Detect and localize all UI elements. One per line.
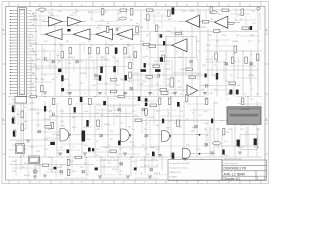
svg-text:A1: A1	[33, 62, 35, 65]
svg-text:A2: A2	[33, 39, 35, 42]
svg-text:1M: 1M	[12, 123, 15, 125]
svg-text:BC547: BC547	[108, 45, 115, 47]
svg-text:Dargestellt: DRONN: Dargestellt: DRONN	[170, 162, 190, 165]
svg-text:1k: 1k	[96, 141, 98, 143]
svg-text:A8: A8	[30, 57, 32, 60]
svg-text:BC547: BC547	[206, 59, 213, 61]
svg-text:47k: 47k	[134, 115, 137, 117]
svg-text:330R: 330R	[68, 57, 73, 59]
svg-text:47k: 47k	[140, 27, 143, 29]
svg-text:1k: 1k	[180, 94, 182, 96]
svg-text:A2: A2	[30, 92, 32, 95]
svg-text:◁— N4148 signal ref line: ◁— N4148 signal ref line	[96, 159, 119, 162]
svg-text:A3: A3	[30, 68, 32, 71]
svg-text:100k: 100k	[142, 81, 146, 83]
svg-text:100n: 100n	[116, 20, 120, 22]
svg-text:10n: 10n	[144, 129, 147, 131]
svg-text:22k: 22k	[84, 127, 87, 129]
svg-text:A6: A6	[32, 24, 34, 27]
svg-text:Zeichnungs-Nr.: Zeichnungs-Nr.	[224, 162, 239, 165]
svg-text:LM358: LM358	[200, 27, 207, 29]
svg-text:100n: 100n	[96, 28, 100, 30]
svg-text:100n: 100n	[40, 79, 44, 81]
svg-text:1M: 1M	[204, 129, 207, 131]
svg-text:330R: 330R	[212, 75, 217, 77]
svg-text:100k: 100k	[48, 169, 52, 171]
svg-text:LM358: LM358	[154, 173, 161, 175]
svg-text:A7: A7	[33, 27, 35, 30]
svg-text:A/RL-LZ 3B4R: A/RL-LZ 3B4R	[224, 172, 246, 176]
svg-text:DDR0NDE1 Plt: DDR0NDE1 Plt	[224, 167, 247, 171]
svg-text:22u: 22u	[112, 57, 115, 59]
svg-text:330R: 330R	[12, 161, 17, 163]
svg-text:100n: 100n	[86, 139, 90, 141]
svg-text:22k: 22k	[60, 165, 63, 167]
svg-text:BC547: BC547	[165, 69, 172, 71]
svg-text:22k: 22k	[154, 77, 157, 79]
svg-text:A8: A8	[32, 83, 34, 86]
svg-text:10k: 10k	[146, 154, 149, 156]
svg-text:22u: 22u	[180, 31, 183, 33]
svg-text:A5: A5	[30, 21, 32, 24]
svg-text:BC547: BC547	[24, 175, 31, 177]
svg-text:330R: 330R	[206, 45, 211, 47]
svg-text:1M: 1M	[146, 35, 149, 37]
svg-text:LM358: LM358	[248, 75, 255, 77]
svg-text:10k: 10k	[130, 157, 133, 159]
svg-text:BC547: BC547	[238, 147, 245, 149]
svg-text:22u: 22u	[88, 127, 91, 129]
svg-text:10k: 10k	[58, 61, 61, 63]
svg-text:10n: 10n	[58, 11, 61, 13]
svg-text:100k: 100k	[222, 35, 226, 37]
svg-text:47k: 47k	[216, 61, 219, 63]
svg-text:10k: 10k	[70, 15, 73, 17]
svg-text:22k: 22k	[96, 113, 99, 115]
svg-text:22k: 22k	[190, 65, 193, 67]
svg-text:22k: 22k	[210, 19, 213, 21]
svg-text:22u: 22u	[120, 79, 123, 81]
svg-text:1k: 1k	[250, 54, 252, 56]
svg-text:22k: 22k	[24, 149, 27, 151]
svg-text:1M: 1M	[144, 149, 147, 151]
svg-text:Gruppenlt: Leitung: Gruppenlt: Leitung	[170, 166, 189, 169]
svg-text:A8: A8	[35, 30, 37, 33]
svg-text:1M: 1M	[116, 61, 119, 63]
svg-text:10n: 10n	[84, 145, 87, 147]
svg-text:A4: A4	[30, 45, 32, 48]
svg-text:100k: 100k	[12, 145, 16, 147]
svg-text:10k: 10k	[60, 45, 63, 47]
svg-text:100n: 100n	[204, 123, 208, 125]
svg-text:A3: A3	[35, 42, 37, 45]
svg-text:LCD DIGIT: LCD DIGIT	[240, 109, 251, 111]
svg-text:BC547: BC547	[158, 45, 165, 47]
svg-text:DRNN LNG: DRNN LNG	[170, 172, 182, 174]
svg-text:47k: 47k	[60, 174, 63, 176]
svg-text:10n: 10n	[132, 161, 135, 163]
svg-text:10k: 10k	[218, 31, 221, 33]
svg-text:47k: 47k	[66, 93, 69, 95]
svg-text:100k: 100k	[178, 57, 182, 59]
svg-text:330R: 330R	[160, 51, 165, 53]
svg-text:10n: 10n	[56, 55, 59, 57]
svg-text:47k: 47k	[226, 132, 229, 134]
svg-text:◁— N4148 signal ref line: ◁— N4148 signal ref line	[136, 159, 159, 162]
svg-text:100k: 100k	[72, 127, 76, 129]
svg-text:47k: 47k	[110, 131, 113, 133]
svg-text:A1: A1	[35, 89, 37, 92]
svg-text:10n: 10n	[250, 65, 253, 67]
svg-text:100n: 100n	[98, 25, 102, 27]
svg-text:1M: 1M	[24, 107, 27, 109]
svg-text:100n: 100n	[224, 155, 228, 157]
svg-text:100k: 100k	[196, 15, 200, 17]
svg-text:1M: 1M	[250, 99, 253, 101]
svg-text:22u: 22u	[96, 155, 99, 157]
svg-text:A3: A3	[33, 15, 35, 18]
svg-text:A9: A9	[32, 59, 34, 62]
svg-text:100n: 100n	[190, 93, 194, 95]
svg-text:10k: 10k	[16, 114, 19, 116]
svg-text:◁— N4148 signal ref line: ◁— N4148 signal ref line	[96, 165, 119, 168]
svg-text:1M: 1M	[130, 15, 133, 17]
svg-text:100k: 100k	[84, 111, 88, 113]
svg-text:330R: 330R	[112, 169, 117, 171]
svg-text:1k: 1k	[116, 115, 118, 117]
svg-text:A7: A7	[35, 54, 37, 57]
svg-text:Gruppe 1/1: Gruppe 1/1	[224, 177, 241, 181]
svg-text:10n: 10n	[214, 89, 217, 91]
svg-text:330R: 330R	[134, 73, 139, 75]
svg-text:22u: 22u	[196, 75, 199, 77]
svg-text:1k: 1k	[148, 165, 150, 167]
svg-text:LM358: LM358	[232, 41, 239, 43]
svg-text:LM358: LM358	[148, 117, 155, 119]
svg-text:1k: 1k	[36, 79, 38, 81]
svg-text:A2: A2	[35, 65, 37, 68]
svg-text:22k: 22k	[236, 35, 239, 37]
svg-text:10n: 10n	[156, 111, 159, 113]
svg-text:N-NNN: N-NNN	[170, 177, 177, 179]
svg-text:A7: A7	[30, 80, 32, 83]
svg-text:LM358: LM358	[56, 167, 63, 169]
svg-text:10n: 10n	[44, 41, 47, 43]
svg-text:22u: 22u	[224, 141, 227, 143]
svg-text:Dokument-Nr. DN: Dokument-Nr. DN	[224, 157, 242, 160]
svg-text:BC547: BC547	[44, 119, 51, 121]
svg-text:BC547: BC547	[80, 73, 87, 75]
svg-text:1k: 1k	[234, 61, 236, 63]
svg-text:47k: 47k	[226, 94, 229, 96]
svg-text:1M: 1M	[80, 83, 83, 85]
svg-text:100n: 100n	[150, 147, 154, 149]
svg-text:A1: A1	[30, 9, 32, 12]
svg-text:LM358: LM358	[30, 109, 37, 111]
svg-text:1k: 1k	[206, 135, 208, 137]
